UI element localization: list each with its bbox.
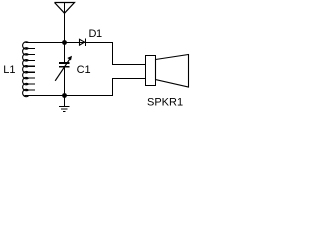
svg-text:L1: L1 — [3, 64, 15, 76]
svg-text:SPKR1: SPKR1 — [147, 97, 183, 109]
svg-text:D1: D1 — [89, 28, 102, 40]
svg-text:C1: C1 — [77, 64, 91, 76]
